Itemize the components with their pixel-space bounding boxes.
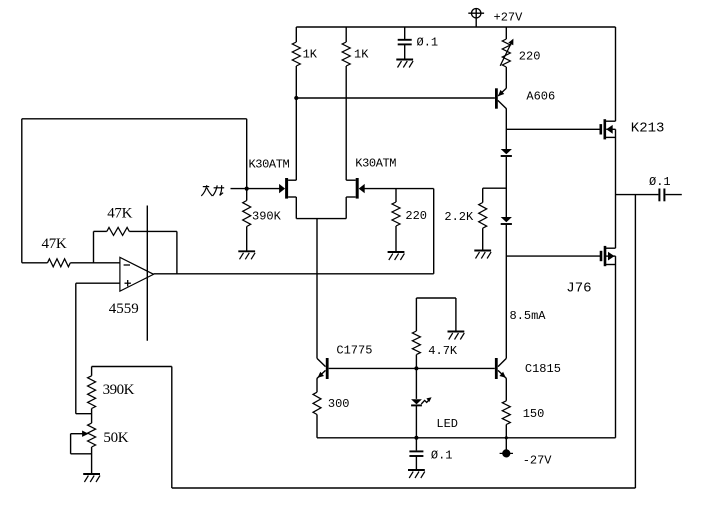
- transistor Q5 C1815: [496, 358, 506, 379]
- label -27V: [523, 454, 553, 468]
- wire right trunk middle (K213 source to J76 drain): [615, 129, 617, 248]
- diode D2: [501, 217, 512, 224]
- label R3 2.2K: [444, 210, 474, 224]
- wire gate loop down to opamp output: [433, 189, 435, 274]
- svg-text:50K: 50K: [103, 430, 128, 446]
- wire 2.2K bottom lead: [482, 228, 484, 250]
- label R10 4.7K: [428, 344, 458, 358]
- wire input stub: [231, 188, 247, 190]
- wire C1 bottom lead: [404, 44, 406, 59]
- node bias node: [414, 366, 418, 370]
- resistor R9 300: [313, 392, 321, 414]
- wire R5 bottom lead: [395, 226, 397, 252]
- wire noninverting input: [76, 282, 120, 284]
- label C3 0.1: [649, 175, 671, 189]
- wire feedback branch up: [93, 231, 95, 262]
- wire R4 bottom lead: [246, 227, 248, 251]
- resistor R11 150: [502, 401, 510, 425]
- ground C1: [396, 60, 413, 68]
- svg-text:K213: K213: [631, 121, 665, 137]
- wire left drain line (R1 to Q1 drain): [295, 66, 297, 180]
- wire R11 to bottom rail: [505, 425, 507, 438]
- wire D2 down to C1815 collector: [505, 224, 507, 359]
- label R2 1K: [354, 48, 369, 62]
- svg-text:4.7K: 4.7K: [428, 344, 458, 358]
- wire Q3 collector down: [505, 108, 507, 149]
- wire D1 to D2: [505, 157, 507, 217]
- ground R5: [388, 252, 405, 260]
- wire 4.7K bracket top: [416, 297, 456, 299]
- svg-text:+27V: +27V: [494, 10, 524, 24]
- wire -27V stub: [505, 438, 507, 450]
- resistor R2 1K: [342, 42, 350, 66]
- label LED1: [436, 417, 458, 431]
- node R11 bottom: [505, 436, 508, 439]
- wire to R6 47K: [22, 262, 48, 264]
- svg-text:A606: A606: [526, 90, 555, 104]
- label R8 390K: [103, 382, 135, 398]
- wire right 1K top lead: [345, 27, 347, 42]
- wire opamp output: [154, 273, 434, 275]
- wire common source: [296, 218, 346, 220]
- svg-text:390K: 390K: [252, 209, 282, 223]
- resistor R1 1K: [292, 42, 300, 66]
- wire tail down to C1775 collector: [316, 219, 318, 359]
- wire 4.7K up: [415, 298, 417, 331]
- wire output line: [616, 194, 659, 196]
- svg-text:K30ATM: K30ATM: [355, 156, 396, 170]
- wire J76 gate line: [506, 255, 601, 257]
- label R1 1K: [303, 48, 318, 62]
- svg-text:LED: LED: [436, 417, 458, 431]
- label R4 390K: [252, 209, 282, 223]
- resistor R10 4.7K: [412, 331, 420, 355]
- wire noninverting vertical: [75, 283, 77, 414]
- label C2 0.1: [431, 448, 453, 462]
- resistor R3 2.2K: [479, 203, 487, 229]
- label Q2 K30ATM: [355, 156, 396, 170]
- wire VR1 top lead: [505, 27, 507, 39]
- mosfet M2 J76: [601, 246, 616, 266]
- wire R8 to VR2: [91, 409, 93, 424]
- ground 4.7K: [448, 332, 465, 340]
- wire bottom rail: [317, 437, 616, 439]
- svg-text:220: 220: [405, 209, 427, 223]
- power terminal +27V: [468, 9, 484, 28]
- jfet Q1 K30ATM: [279, 178, 296, 199]
- wire R4 390K top lead: [246, 189, 248, 201]
- node LED bottom: [414, 436, 418, 440]
- wire 2.2K branch: [483, 187, 507, 189]
- label VR1 220: [519, 49, 541, 63]
- wire divider top corner: [76, 413, 92, 415]
- wire 2.2K top lead: [482, 188, 484, 202]
- label M1 K213: [631, 121, 665, 137]
- svg-text:C1815: C1815: [525, 362, 561, 376]
- wire right drain line (R2 to Q2 drain): [345, 66, 347, 180]
- svg-text:Ø.1: Ø.1: [431, 448, 453, 462]
- mosfet M1 K213: [601, 119, 616, 139]
- label Q5 C1815: [525, 362, 561, 376]
- wire bottom feedback rail: [172, 487, 636, 489]
- wire right trunk lower (J76 source to bottom rail): [615, 256, 617, 438]
- wire C2 top lead: [415, 438, 417, 451]
- wire left 1K top lead: [295, 27, 297, 42]
- led LED1: [411, 397, 432, 405]
- wire Q4 emitter down: [316, 378, 318, 392]
- wire vertical through opamp: [146, 206, 148, 341]
- label 8.5mA: [510, 309, 547, 323]
- wire Q2 source down: [345, 197, 347, 219]
- wire feedback tap down: [171, 367, 173, 489]
- wire feedback tap horizontal: [92, 366, 172, 368]
- wire down to input node: [246, 119, 248, 189]
- label C1 0.1: [417, 35, 439, 49]
- ground R4: [238, 251, 255, 259]
- wire left vertical: [21, 119, 23, 263]
- svg-text:1K: 1K: [303, 48, 318, 62]
- resistor R6 47K: [48, 259, 71, 267]
- svg-text:8.5mA: 8.5mA: [510, 309, 547, 323]
- wire VR1 to Q3 emitter: [505, 67, 507, 88]
- power terminal -27V: [500, 449, 513, 457]
- trimmer VR1 220: [500, 39, 513, 67]
- svg-text:390K: 390K: [103, 382, 135, 398]
- svg-text:300: 300: [328, 397, 350, 411]
- wire +27V top rail: [296, 26, 615, 28]
- ground 2.2K: [474, 251, 491, 259]
- wire R8 390K top lead: [91, 367, 93, 376]
- wire VR2 bottom lead: [91, 447, 93, 474]
- label +27V: [494, 10, 524, 24]
- resistor R5 220: [392, 202, 400, 226]
- label Q4 C1775: [336, 344, 372, 358]
- svg-text:C1775: C1775: [336, 344, 372, 358]
- transistor Q4 C1775: [317, 358, 327, 379]
- capacitor C3 0.1 output: [659, 189, 664, 202]
- label R9 300: [328, 397, 350, 411]
- label Q3 A606: [526, 90, 555, 104]
- wire K213 gate line: [506, 128, 601, 130]
- label VR2 50K: [103, 430, 128, 446]
- wire top-left horizontal: [22, 118, 247, 120]
- svg-text:1K: 1K: [354, 48, 369, 62]
- wire 4.7K bracket down: [455, 298, 457, 331]
- wire LED top lead: [415, 368, 417, 399]
- svg-text:2.2K: 2.2K: [444, 210, 474, 224]
- wire C1 top lead: [404, 27, 406, 39]
- resistor R7 47K feedback: [107, 227, 130, 235]
- wire R6 to inverting input: [70, 262, 120, 264]
- label R6 47K: [42, 236, 67, 252]
- capacitor C1 0.1: [398, 40, 412, 45]
- label R11 150: [523, 407, 545, 421]
- label Q1 K30ATM: [249, 158, 290, 172]
- svg-text:-27V: -27V: [523, 454, 553, 468]
- wire VR2 wiper: [71, 431, 89, 437]
- svg-text:220: 220: [519, 49, 541, 63]
- wire Q2 gate line: [362, 188, 434, 190]
- diode D1: [501, 149, 512, 156]
- svg-text:4559: 4559: [109, 301, 139, 317]
- svg-text:47K: 47K: [42, 236, 67, 252]
- ground C2: [408, 470, 425, 478]
- capacitor C2 0.1: [409, 451, 423, 456]
- svg-text:150: 150: [523, 407, 545, 421]
- resistor R4 390K: [243, 201, 251, 227]
- wire Q5 emitter down: [505, 378, 507, 401]
- wire C2 bottom lead: [415, 456, 417, 470]
- wire input node to Q1 gate: [247, 188, 284, 190]
- jfet Q2 K30ATM: [346, 178, 365, 199]
- label R7 47K: [107, 206, 132, 222]
- node input: [245, 187, 249, 191]
- svg-text:J76: J76: [566, 281, 591, 297]
- resistor R8 390K: [88, 376, 96, 409]
- label M2 J76: [566, 281, 591, 297]
- node left drain junction: [294, 96, 298, 100]
- wire base line to A606: [296, 97, 495, 99]
- ground VR2: [83, 474, 100, 482]
- wire R9 to bottom rail: [316, 415, 318, 438]
- wire base line Q4-Q5: [329, 367, 495, 369]
- trimmer VR2 50K: [88, 423, 96, 447]
- wire Q1 source down: [295, 197, 297, 219]
- wire R5 220 top lead: [395, 189, 397, 202]
- wire feedback branch down: [634, 195, 636, 488]
- label U1 4559: [109, 301, 139, 317]
- svg-text:47K: 47K: [107, 206, 132, 222]
- svg-text:Ø.1: Ø.1: [649, 175, 671, 189]
- wire R7 to corner: [129, 230, 177, 232]
- wire LED bottom lead: [415, 405, 417, 437]
- wire R10 4.7K bottom lead: [415, 355, 417, 369]
- wire right trunk upper (rail to K213 drain): [615, 27, 617, 121]
- wire to R7 47K: [94, 230, 107, 232]
- wire output stub after C3: [665, 194, 681, 196]
- svg-text:K30ATM: K30ATM: [249, 158, 290, 172]
- wire wiper to VR2 bottom: [71, 453, 92, 455]
- label input kanji: [201, 185, 224, 196]
- svg-text:Ø.1: Ø.1: [417, 35, 439, 49]
- wire feedback corner down: [176, 231, 178, 273]
- wire wiper down: [70, 434, 72, 454]
- transistor Q3 A606: [496, 88, 506, 108]
- label R5 220: [405, 209, 427, 223]
- op-amp U1 4559: [120, 257, 154, 291]
